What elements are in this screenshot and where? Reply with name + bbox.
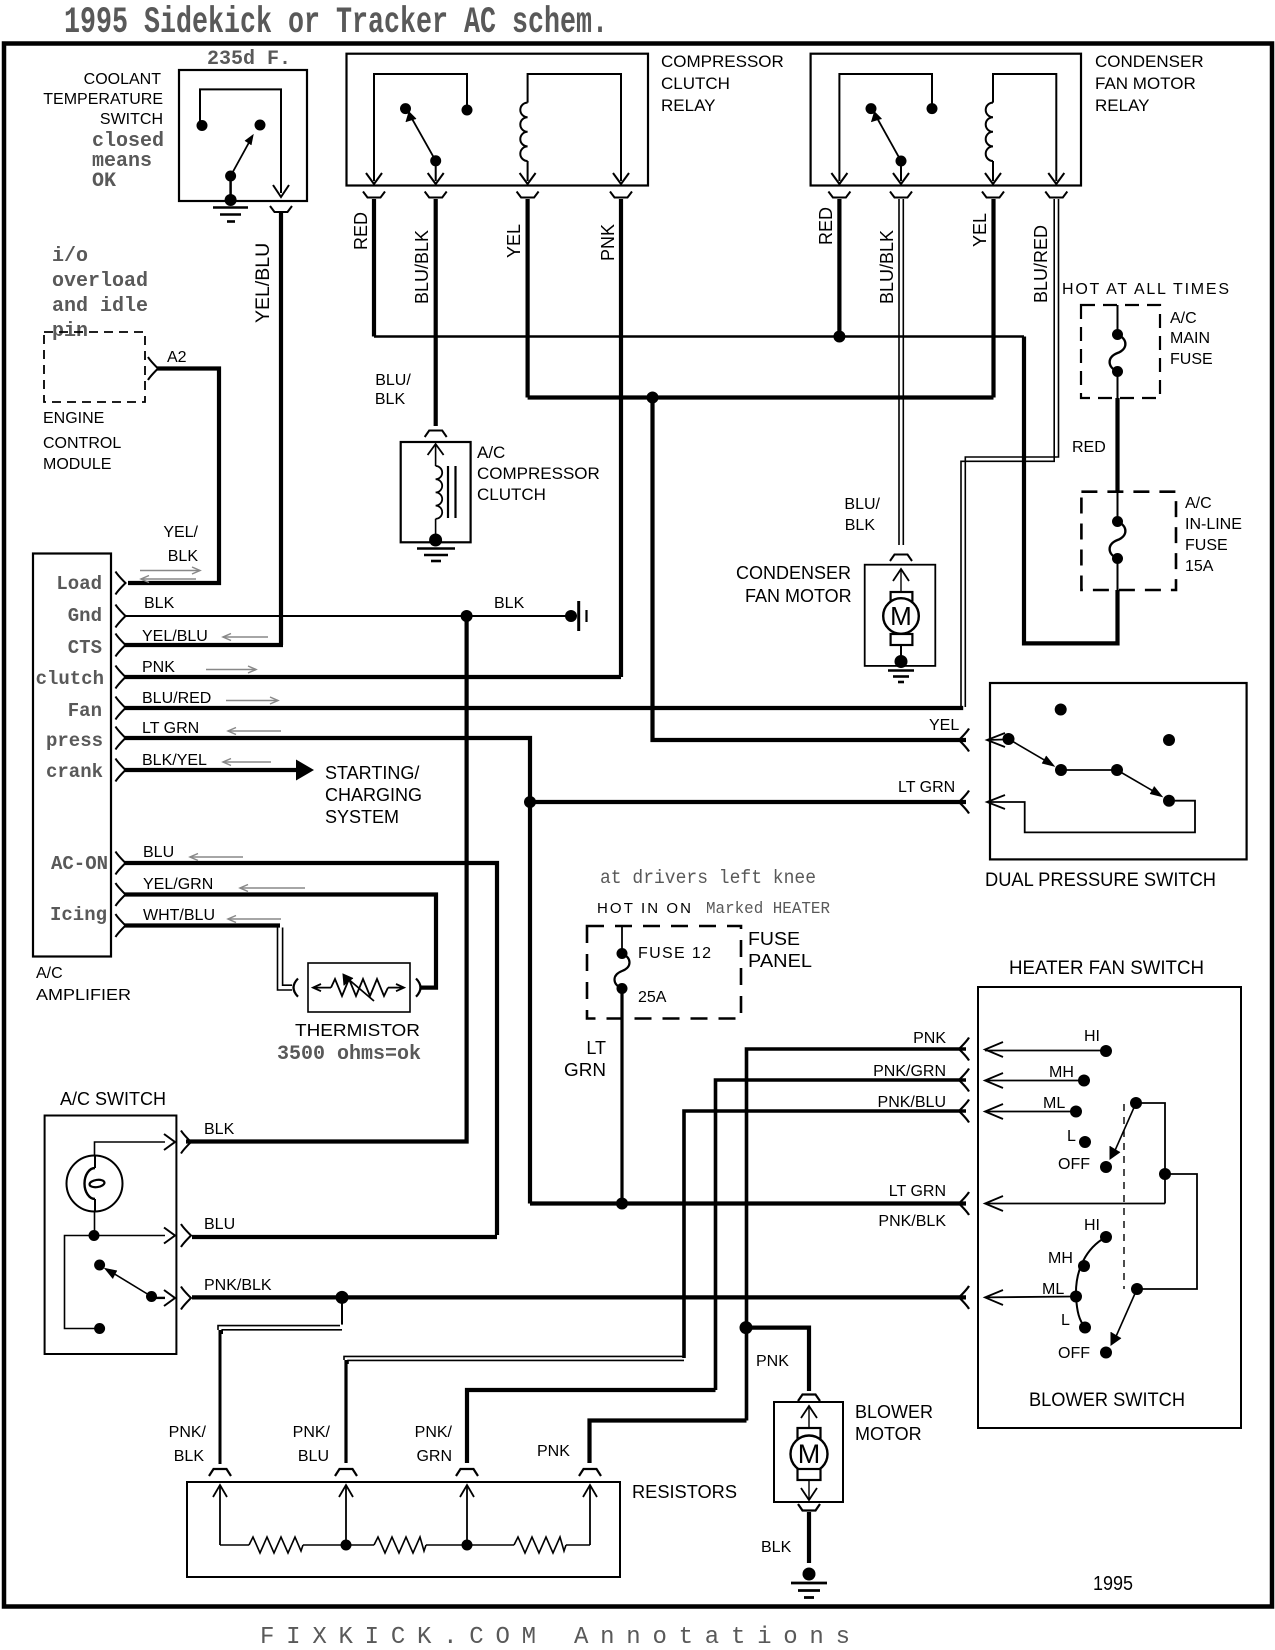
A/C main fuse element <box>1117 305 1119 331</box>
heater fan switch box <box>978 987 1241 1428</box>
svg-text:BLU/RED: BLU/RED <box>1031 225 1051 303</box>
A/C switch lamp wires <box>95 1142 166 1156</box>
svg-text:RED: RED <box>1072 439 1106 456</box>
svg-text:BLU: BLU <box>204 1216 235 1233</box>
wire BLU (AC-ON pin) <box>124 863 497 1235</box>
svg-text:BLU/RED: BLU/RED <box>142 690 211 707</box>
svg-text:PNK: PNK <box>537 1443 570 1460</box>
wire BLK vertical to A/C switch <box>186 616 467 1142</box>
wire BLU/BLK (compressor relay) <box>434 199 438 426</box>
resistor input arrows <box>213 1485 597 1545</box>
svg-text:L: L <box>1061 1312 1070 1329</box>
A/C switch lamp <box>67 1156 123 1212</box>
svg-text:IN-LINE: IN-LINE <box>1185 516 1242 533</box>
resistors box <box>187 1482 620 1577</box>
svg-text:COMPRESSOR: COMPRESSOR <box>661 52 784 71</box>
heater switch upper arm <box>1130 1097 1142 1109</box>
svg-text:OFF: OFF <box>1058 1345 1090 1362</box>
A/C amplifier pin names <box>36 573 108 926</box>
ground (coolant switch) <box>213 208 248 222</box>
label YEL/ BLK <box>163 524 198 565</box>
svg-text:YEL: YEL <box>970 213 990 247</box>
svg-text:YEL/BLU: YEL/BLU <box>252 243 274 323</box>
node BLK junction <box>461 610 473 622</box>
heater connector PNK/GRN <box>959 1069 969 1092</box>
fuse 12 element <box>621 926 623 950</box>
wire BLK/YEL (crank pin) <box>124 768 297 772</box>
coolant switch contact dots <box>197 120 208 131</box>
node resistor junction 2 <box>462 1540 473 1551</box>
arrow YEL/GRN <box>240 885 305 892</box>
wire BLU/RED (Fan pin) <box>124 706 963 710</box>
condenser fan motor box <box>865 565 936 666</box>
signal arrows on YEL/BLK <box>140 567 200 583</box>
coolant switch pivot to ground <box>229 176 232 201</box>
svg-text:235d F.: 235d F. <box>207 48 291 71</box>
wire YEL/GRN <box>124 895 436 988</box>
svg-text:FAN MOTOR: FAN MOTOR <box>1095 74 1196 93</box>
connector above blower motor <box>798 1395 820 1402</box>
svg-text:HI: HI <box>1084 1217 1100 1234</box>
svg-text:GRN: GRN <box>416 1448 452 1465</box>
heater connector PNK/BLK <box>959 1286 969 1309</box>
svg-text:BLK: BLK <box>375 391 406 408</box>
svg-text:BLK: BLK <box>174 1448 205 1465</box>
svg-text:PNK/: PNK/ <box>293 1424 331 1441</box>
A/C switch contact dots <box>89 1230 100 1241</box>
label FUSE PANEL <box>748 929 812 971</box>
wire LT GRN to dual pressure switch <box>530 800 966 804</box>
svg-text:SWITCH: SWITCH <box>100 111 163 128</box>
svg-text:A/C SWITCH: A/C SWITCH <box>60 1089 166 1109</box>
dual pressure connector LT GRN <box>959 791 969 814</box>
heater connector LT GRN <box>959 1192 969 1215</box>
wire RED bus horizontal <box>374 335 1024 338</box>
svg-text:CLUTCH: CLUTCH <box>661 74 730 93</box>
svg-text:ML: ML <box>1043 1095 1065 1112</box>
heater switch lower arm <box>1131 1283 1143 1295</box>
wire YEL bus horizontal <box>528 395 994 399</box>
svg-text:FUSE: FUSE <box>748 929 800 949</box>
wire PNK/GRN to resistors <box>467 1390 716 1463</box>
svg-text:Load: Load <box>56 573 102 595</box>
svg-text:crank: crank <box>46 761 103 783</box>
svg-text:YEL: YEL <box>929 717 959 734</box>
svg-text:1995 Sidekick or Tracker AC sc: 1995 Sidekick or Tracker AC schem. <box>64 2 608 44</box>
node PNK/BLK junction <box>336 1291 349 1304</box>
heater switch lower contacts <box>1100 1231 1112 1243</box>
svg-text:and idle: and idle <box>52 295 148 318</box>
wire RED (compressor relay) <box>372 199 376 337</box>
heater switch gang dashed line <box>1123 1104 1125 1289</box>
compressor clutch relay box <box>347 54 649 186</box>
A/C main fuse text <box>1170 310 1213 368</box>
heater switch lower contact arc <box>1076 1237 1106 1328</box>
wire YEL to dual pressure switch <box>653 398 967 741</box>
svg-text:Marked HEATER: Marked HEATER <box>706 900 830 919</box>
svg-text:ENGINE: ENGINE <box>43 410 104 427</box>
resistor R2 <box>346 1537 467 1553</box>
svg-text:PNK: PNK <box>598 224 618 261</box>
svg-text:RELAY: RELAY <box>1095 96 1150 115</box>
thermistor right connector <box>416 979 421 997</box>
compressor relay switch arm <box>430 155 441 166</box>
svg-text:TEMPERATURE: TEMPERATURE <box>43 91 163 108</box>
svg-text:THERMISTOR: THERMISTOR <box>295 1020 420 1040</box>
wire PNK to resistors <box>590 1421 747 1464</box>
svg-text:RELAY: RELAY <box>661 96 716 115</box>
svg-text:RED: RED <box>816 207 836 245</box>
arrow BLU <box>190 854 243 861</box>
dual pressure switch contacts <box>1055 704 1067 716</box>
svg-text:CONDENSER: CONDENSER <box>736 563 851 583</box>
A/C amplifier box <box>33 554 111 957</box>
svg-text:BLK: BLK <box>204 1121 235 1138</box>
svg-text:BLOWER SWITCH: BLOWER SWITCH <box>1029 1390 1185 1411</box>
svg-text:RESISTORS: RESISTORS <box>632 1482 737 1502</box>
wire WHT/BLU (Icing pin) <box>124 923 280 927</box>
node resistor junction 1 <box>341 1540 352 1551</box>
A/C main fuse dashed box <box>1081 305 1160 398</box>
svg-text:BLK: BLK <box>168 548 199 565</box>
ground (blower motor) <box>803 1568 816 1581</box>
svg-text:LT GRN: LT GRN <box>889 1183 946 1200</box>
svg-text:PNK/: PNK/ <box>415 1424 453 1441</box>
blower motor symbol <box>801 1406 817 1418</box>
compressor clutch coil and core <box>428 444 444 455</box>
label LT GRN (fuse) <box>564 1038 606 1080</box>
svg-text:LT: LT <box>586 1038 606 1058</box>
svg-text:3500 ohms=ok: 3500 ohms=ok <box>277 1043 421 1066</box>
wire RED (condenser relay) <box>837 199 841 337</box>
svg-text:OFF: OFF <box>1058 1156 1090 1173</box>
svg-text:PNK: PNK <box>142 659 175 676</box>
connector below blower motor <box>798 1504 820 1511</box>
wire BLU (A/C switch) <box>192 1235 497 1239</box>
A/C switch pin connectors <box>181 1131 191 1310</box>
svg-text:PANEL: PANEL <box>748 951 812 971</box>
arrow BLU/RED <box>226 697 278 704</box>
connectors below condenser relay <box>828 192 1067 198</box>
node RED junction <box>833 331 845 343</box>
svg-text:PNK/BLK: PNK/BLK <box>878 1213 946 1230</box>
svg-text:FIXKICK.COM Annotations: FIXKICK.COM Annotations <box>260 1624 850 1650</box>
wire BLK (blower motor) <box>807 1512 811 1563</box>
svg-text:AMPLIFIER: AMPLIFIER <box>36 987 131 1004</box>
svg-text:YEL/: YEL/ <box>163 524 198 541</box>
wire PNK/BLU feed <box>684 1111 966 1358</box>
svg-text:ML: ML <box>1042 1281 1064 1298</box>
svg-text:LT GRN: LT GRN <box>898 779 955 796</box>
wire PNK (compressor relay) <box>619 199 623 677</box>
label BLU/ BLK (condenser fan) <box>844 496 880 534</box>
svg-text:A/C: A/C <box>36 965 63 982</box>
svg-text:CHARGING: CHARGING <box>325 785 422 805</box>
label PNK/ GRN (resistor) <box>415 1424 453 1465</box>
svg-text:A2: A2 <box>167 349 187 366</box>
condenser fan motor label <box>736 563 852 606</box>
coolant switch arm <box>231 137 252 176</box>
coolant switch leg arrow <box>273 185 289 197</box>
wire YEL (condenser relay) <box>991 199 995 398</box>
wire RED return path from in-line fuse <box>1024 337 1118 644</box>
A/C compressor clutch text <box>477 443 600 504</box>
svg-text:PNK/: PNK/ <box>169 1424 207 1441</box>
ground (compressor clutch) <box>429 534 442 547</box>
svg-text:press: press <box>46 730 103 752</box>
svg-text:A/C: A/C <box>1185 495 1212 512</box>
wire BLU/BLK double line (condenser relay to fan motor) <box>898 199 900 545</box>
resistor R3 <box>467 1537 590 1553</box>
dual pressure switch arms <box>1061 769 1117 771</box>
node LT GRN junction <box>524 796 536 808</box>
svg-text:1995: 1995 <box>1093 1573 1133 1595</box>
compressor clutch relay text <box>661 52 784 115</box>
A/C in-line fuse text <box>1185 495 1242 575</box>
wire YEL/BLU vertical <box>279 213 283 645</box>
svg-text:HOT IN ON: HOT IN ON <box>597 900 691 917</box>
blower motor label <box>855 1402 933 1444</box>
svg-text:HI: HI <box>1084 1028 1100 1045</box>
connector above condenser fan motor <box>890 555 912 562</box>
heater switch common wiring <box>1136 1103 1165 1204</box>
label PNK/ BLU (resistor) <box>293 1424 331 1465</box>
svg-text:Gnd: Gnd <box>68 605 102 627</box>
compressor relay contact wire <box>374 74 467 181</box>
wire LT GRN from fuse 12 <box>620 989 623 1204</box>
svg-text:CTS: CTS <box>68 637 102 659</box>
starting/charging system text <box>325 763 422 827</box>
coolant temperature switch box <box>179 70 307 201</box>
svg-text:LT GRN: LT GRN <box>142 720 199 737</box>
dual pressure switch box <box>990 683 1247 859</box>
label BLU/ BLK (compressor clutch) <box>375 372 411 408</box>
coolant switch internal wire <box>200 89 281 193</box>
svg-text:FUSE: FUSE <box>1185 537 1228 554</box>
svg-text:HOT AT ALL TIMES: HOT AT ALL TIMES <box>1062 281 1229 298</box>
svg-text:BLU: BLU <box>298 1448 329 1465</box>
wire PNK (clutch pin) <box>124 675 621 679</box>
A/C amplifier text <box>36 965 131 1004</box>
svg-text:at drivers left knee: at drivers left knee <box>600 867 816 889</box>
condenser fan motor relay box <box>811 54 1081 186</box>
svg-text:COMPRESSOR: COMPRESSOR <box>477 464 600 483</box>
svg-text:i/o: i/o <box>52 245 88 268</box>
wire YEL (compressor relay) <box>525 199 529 398</box>
resistor R1 <box>220 1537 346 1553</box>
dual pressure internal wire <box>987 801 1195 833</box>
svg-text:15A: 15A <box>1185 558 1214 575</box>
svg-text:CONTROL: CONTROL <box>43 435 121 452</box>
svg-text:MODULE: MODULE <box>43 456 111 473</box>
svg-text:L: L <box>1067 1128 1076 1145</box>
svg-text:FAN MOTOR: FAN MOTOR <box>745 586 852 606</box>
svg-text:FUSE: FUSE <box>1170 351 1213 368</box>
condenser fan motor relay text <box>1095 52 1204 115</box>
A/C switch box <box>45 1116 177 1355</box>
resistor connector PNK/BLU <box>335 1469 357 1476</box>
svg-text:WHT/BLU: WHT/BLU <box>143 907 215 924</box>
svg-text:BLK: BLK <box>494 595 525 612</box>
svg-text:RED: RED <box>351 212 371 250</box>
svg-text:COOLANT: COOLANT <box>84 71 162 88</box>
engine control module box <box>44 332 145 402</box>
compressor relay coil <box>527 161 529 181</box>
svg-text:M: M <box>890 601 912 631</box>
condenser relay contact wire <box>839 74 932 181</box>
node YEL junction <box>647 392 659 404</box>
svg-text:CLUTCH: CLUTCH <box>477 485 546 504</box>
svg-text:BLK: BLK <box>845 517 876 534</box>
A/C amplifier pin connectors <box>116 572 126 938</box>
svg-text:Icing: Icing <box>50 904 107 926</box>
svg-text:MOTOR: MOTOR <box>855 1424 922 1444</box>
wire RED (fuse) <box>1115 398 1119 492</box>
svg-text:OK: OK <box>92 170 116 193</box>
wire PNK/BLK branch to resistors (double line) <box>341 1297 343 1324</box>
condenser relay coil <box>992 161 994 181</box>
wire LT GRN to heater fan switch <box>530 1201 966 1205</box>
svg-text:clutch: clutch <box>36 668 104 690</box>
svg-text:DUAL PRESSURE SWITCH: DUAL PRESSURE SWITCH <box>985 869 1216 891</box>
svg-text:PNK/BLU: PNK/BLU <box>878 1094 946 1111</box>
svg-text:BLK: BLK <box>144 595 175 612</box>
ECM pin A2 connector <box>148 357 158 380</box>
svg-text:M: M <box>798 1439 821 1469</box>
wire PNK branch to blower motor <box>746 1328 809 1391</box>
A/C compressor clutch box <box>401 442 471 542</box>
arrow PNK <box>206 666 256 673</box>
node LT GRN fuse junction <box>616 1198 628 1210</box>
arrow to starting/charging system <box>296 760 314 781</box>
blower motor box <box>774 1402 843 1502</box>
wire BLU/RED double line (condenser relay) <box>961 199 1054 707</box>
svg-text:BLU/BLK: BLU/BLK <box>877 230 897 304</box>
svg-text:YEL/GRN: YEL/GRN <box>143 876 213 893</box>
svg-text:YEL/BLU: YEL/BLU <box>142 628 208 645</box>
svg-text:STARTING/: STARTING/ <box>325 763 419 783</box>
svg-text:25A: 25A <box>638 989 667 1006</box>
wire PNK/GRN feed <box>716 1080 967 1390</box>
wire BLK (Gnd pin) <box>124 615 571 617</box>
fuse panel dashed box <box>587 926 741 1019</box>
arrow LT GRN <box>228 728 281 735</box>
wire WHT/BLU double line to thermistor <box>278 928 293 991</box>
connectors below compressor relay <box>363 192 632 198</box>
resistor connector PNK/BLK <box>209 1469 231 1476</box>
svg-text:BLU/: BLU/ <box>375 372 411 389</box>
condenser relay switch arm <box>896 156 907 167</box>
A/C in-line fuse dashed box <box>1081 492 1176 590</box>
thermistor left connector <box>294 979 299 997</box>
resistor connector PNK <box>579 1469 601 1476</box>
heater switch upper contacts <box>985 1050 1104 1052</box>
svg-text:AC-ON: AC-ON <box>51 853 108 875</box>
wire LT GRN (press pin) <box>124 738 530 1204</box>
svg-text:HEATER FAN SWITCH: HEATER FAN SWITCH <box>1009 958 1204 979</box>
i/o overload and idle pin note <box>52 245 148 343</box>
svg-text:BLOWER: BLOWER <box>855 1402 933 1422</box>
resistor connector PNK/GRN <box>456 1469 478 1476</box>
A/C switch pin arrows <box>164 1134 175 1150</box>
arrow WHT/BLU <box>228 916 281 923</box>
svg-text:CONDENSER: CONDENSER <box>1095 52 1204 71</box>
arrow BLK/YEL <box>223 759 271 766</box>
heater connector PNK <box>959 1038 969 1061</box>
svg-text:PNK: PNK <box>756 1353 789 1370</box>
svg-text:GRN: GRN <box>564 1060 606 1080</box>
svg-text:MH: MH <box>1048 1250 1073 1267</box>
dual pressure connector YEL <box>959 729 969 752</box>
svg-text:A/C: A/C <box>477 443 505 462</box>
wire PNK/BLK to heater fan switch <box>192 1295 966 1299</box>
wire YEL/BLK from ECM A2 to amplifier Load pin <box>128 369 219 584</box>
svg-text:YEL: YEL <box>504 224 524 258</box>
heater connector PNK/BLU <box>959 1100 969 1123</box>
svg-text:A/C: A/C <box>1170 310 1197 327</box>
connector above A/C compressor clutch <box>425 431 447 438</box>
chassis ground (BLK) <box>565 610 577 622</box>
svg-text:MH: MH <box>1049 1064 1074 1081</box>
svg-text:BLK/YEL: BLK/YEL <box>142 752 207 769</box>
wire PNK feed <box>747 1049 967 1421</box>
svg-text:SYSTEM: SYSTEM <box>325 807 399 827</box>
svg-text:overload: overload <box>52 270 148 293</box>
svg-text:MAIN: MAIN <box>1170 330 1210 347</box>
A/C switch arm <box>108 1270 152 1297</box>
svg-text:Fan: Fan <box>68 700 102 722</box>
A/C in-line fuse element <box>1117 492 1119 518</box>
ground (condenser fan motor) <box>895 655 908 668</box>
coolant temperature switch text <box>43 71 163 128</box>
arrow YEL/BLU <box>223 634 268 641</box>
svg-text:PNK/GRN: PNK/GRN <box>873 1063 946 1080</box>
svg-text:BLK: BLK <box>761 1539 792 1556</box>
coolant switch note: closed means OK <box>92 130 164 193</box>
svg-text:BLU/BLK: BLU/BLK <box>412 230 432 304</box>
node PNK blower junction <box>740 1321 753 1334</box>
svg-text:PNK/BLK: PNK/BLK <box>204 1277 272 1294</box>
svg-text:FUSE 12: FUSE 12 <box>638 945 711 962</box>
connector below coolant switch <box>270 206 292 212</box>
svg-text:PNK: PNK <box>913 1030 946 1047</box>
thermistor box <box>308 963 410 1012</box>
svg-text:BLU: BLU <box>143 844 174 861</box>
wire YEL/BLU (CTS pin) <box>124 643 283 647</box>
engine control module text <box>43 410 121 473</box>
wire PNK/BLU to resistors (double line) <box>344 1356 684 1360</box>
condenser fan motor symbol <box>893 569 909 581</box>
thermistor element <box>313 978 404 1001</box>
svg-text:BLU/: BLU/ <box>844 496 880 513</box>
label PNK/ BLK (resistor) <box>169 1424 207 1465</box>
